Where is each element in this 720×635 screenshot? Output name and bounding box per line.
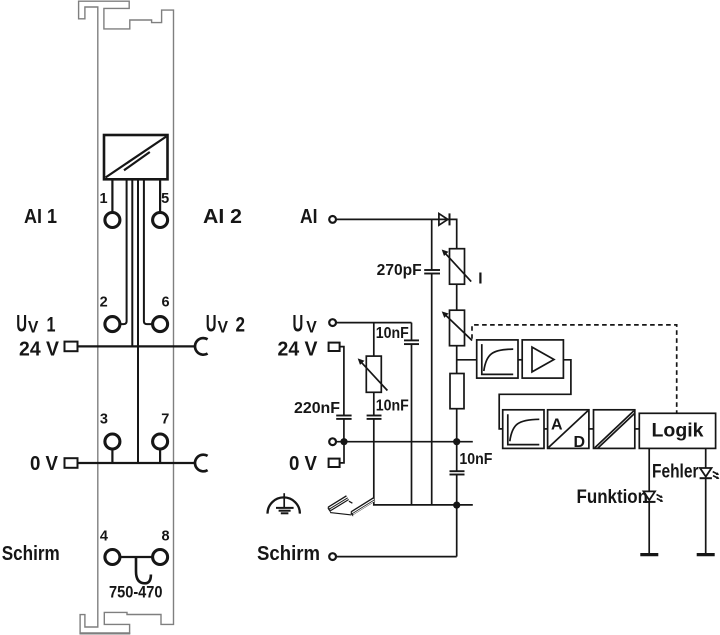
- junction shield rail node: [453, 502, 460, 509]
- svg-text:5: 5: [161, 191, 169, 207]
- svg-text:220nF: 220nF: [294, 400, 340, 417]
- svg-text:U: U: [293, 310, 304, 337]
- wire Fehler LED to ground: [705, 478, 707, 554]
- wire AI line: [337, 219, 457, 248]
- terminal 8: [153, 550, 168, 565]
- svg-text:2: 2: [100, 295, 108, 311]
- wire 0V line: [337, 441, 473, 443]
- wire R4 to 10nF b: [373, 392, 375, 415]
- svg-text:24 V: 24 V: [278, 338, 318, 361]
- wire Logik to Fehler LED: [705, 448, 707, 468]
- op-amp U3: [522, 340, 563, 378]
- terminal 5: [153, 213, 168, 228]
- wire ADC to isolator: [589, 428, 594, 430]
- terminal 2: [105, 317, 120, 332]
- svg-text:24 V: 24 V: [19, 338, 59, 361]
- 0V pass-through contact arc: [195, 455, 208, 472]
- svg-text:AI: AI: [300, 205, 318, 228]
- 24V square connector right: [329, 343, 340, 351]
- svg-text:Schirm: Schirm: [2, 542, 60, 565]
- LED Fehler: [700, 468, 720, 479]
- wire pin5 stub: [159, 179, 161, 213]
- svg-text:A: A: [551, 417, 563, 434]
- shield clamp symbol: [328, 495, 376, 516]
- node AI input circle: [329, 216, 336, 223]
- wire 270pF branch upper: [431, 219, 433, 270]
- svg-text:7: 7: [161, 411, 169, 427]
- wire 10nF c to shield rail: [456, 475, 458, 506]
- wire R3 to 0V node: [456, 409, 458, 442]
- svg-text:Funktion: Funktion: [577, 487, 649, 508]
- svg-text:10nF: 10nF: [459, 451, 492, 468]
- wire 24V stub to 220nF branch: [340, 347, 344, 416]
- terminal 1: [105, 213, 120, 228]
- svg-text:D: D: [574, 434, 586, 451]
- wire 0V to 10nF c: [456, 442, 458, 472]
- svg-text:8: 8: [161, 529, 169, 545]
- wire isolator to Logik: [635, 428, 640, 430]
- wire bundle line to 24V rail: [131, 179, 133, 346]
- capacitor 220nF: [336, 416, 351, 419]
- wire Uv varistor branch upper: [373, 323, 375, 357]
- wire 0V square stub: [340, 442, 344, 463]
- svg-text:270pF: 270pF: [377, 262, 422, 279]
- resistor R3: [450, 374, 464, 409]
- svg-text:2: 2: [236, 313, 246, 336]
- svg-text:Logik: Logik: [652, 421, 704, 442]
- wire shield rail to Schirm: [456, 505, 458, 556]
- svg-text:1: 1: [99, 191, 107, 207]
- module 750-470 outline: [79, 1, 174, 633]
- wire 10nF-b to shield rail corner: [374, 419, 473, 505]
- wire 0V module rail: [78, 462, 195, 464]
- filter block U2: [477, 340, 518, 378]
- node 0V circle: [329, 438, 336, 445]
- label Uv 2: [206, 310, 245, 337]
- capacitor 10nF a: [404, 340, 419, 344]
- isolator U6: [594, 410, 635, 449]
- dashed control line R2 to Logik: [472, 325, 677, 413]
- wire 220nF to 0V node: [343, 419, 345, 441]
- svg-text:6: 6: [161, 295, 169, 311]
- 24V feed square connector left: [65, 342, 78, 352]
- label Uv 1: [16, 310, 56, 337]
- wire 10nF-a branch upper: [411, 323, 413, 341]
- wire Uv line: [337, 322, 412, 324]
- 0V feed square connector left: [65, 458, 78, 468]
- wire input to filter block: [457, 359, 477, 361]
- earth ground symbol: [268, 493, 300, 513]
- filter block U4: [503, 410, 544, 449]
- wire between R1 and R2: [456, 284, 458, 310]
- svg-text:0 V: 0 V: [289, 452, 317, 475]
- svg-text:Fehler: Fehler: [652, 462, 699, 483]
- wire pin1 stub: [111, 179, 113, 213]
- wire Schirm line: [337, 556, 457, 558]
- svg-text:AI 2: AI 2: [203, 205, 242, 228]
- terminal 7: [153, 434, 168, 449]
- svg-text:Schirm: Schirm: [257, 542, 320, 565]
- wire bundle line to 0V rail: [137, 179, 139, 463]
- svg-text:U: U: [206, 310, 217, 337]
- wire R2 to R3: [456, 346, 458, 374]
- svg-text:3: 3: [100, 411, 108, 427]
- svg-text:AI 1: AI 1: [24, 205, 57, 228]
- shield contact hook: [136, 557, 151, 583]
- wire Logik to Funktion LED: [648, 448, 650, 491]
- capacitor 10nF c: [450, 471, 465, 474]
- wire terminal 3 stub: [111, 449, 113, 463]
- 0V square connector right: [329, 459, 340, 467]
- capacitor 10nF b: [367, 416, 382, 419]
- svg-text:750-470: 750-470: [109, 583, 163, 602]
- resistor R2 variable gain: [442, 310, 472, 346]
- junction main 0V node: [453, 438, 460, 445]
- svg-text:0 V: 0 V: [30, 452, 58, 475]
- wire 24V module rail: [78, 345, 195, 347]
- module foot bottom edge: [80, 632, 131, 634]
- wire bundle line to terminal 6: [144, 179, 152, 324]
- svg-text:V: V: [306, 318, 317, 337]
- svg-text:U: U: [16, 310, 27, 337]
- terminal 4: [105, 550, 120, 565]
- terminal 6: [153, 317, 168, 332]
- junction 24V/0V node: [340, 438, 347, 445]
- wire 10nF-a branch lower: [411, 344, 413, 505]
- svg-text:V: V: [218, 318, 229, 337]
- resistor R4 variable: [358, 356, 388, 392]
- wire bundle line to terminal 2: [121, 179, 127, 324]
- svg-text:10nF: 10nF: [376, 325, 409, 342]
- terminal 3: [105, 434, 120, 449]
- wire terminal 7 stub: [159, 449, 161, 463]
- 24V pass-through contact arc: [195, 338, 208, 355]
- wire filter to ADC: [544, 428, 548, 430]
- transformer U1: [104, 135, 168, 179]
- LED Funktion: [643, 491, 663, 502]
- ground Fehler: [697, 553, 715, 556]
- svg-text:4: 4: [100, 529, 108, 545]
- svg-text:I: I: [478, 271, 482, 288]
- capacitor 270pF: [424, 270, 440, 274]
- wire 270pF branch lower: [431, 274, 433, 505]
- wire shield bar terminals 4-8: [120, 556, 153, 558]
- svg-text:V: V: [28, 318, 39, 337]
- label Uv right: [293, 310, 318, 337]
- resistor R1 variable current limiter: [442, 249, 472, 285]
- wire filter to amplifier: [518, 359, 522, 361]
- node Schirm circle: [329, 553, 336, 560]
- wire Funktion LED to ground: [648, 502, 650, 555]
- node Uv circle: [329, 319, 336, 326]
- Logik block U7: [639, 413, 715, 448]
- A/D converter U5: [548, 410, 589, 451]
- svg-text:10nF: 10nF: [376, 397, 409, 414]
- diode D1: [439, 213, 450, 225]
- svg-text:1: 1: [47, 313, 56, 336]
- ground Funktion: [640, 553, 658, 556]
- wire amplifier to second filter: [499, 360, 571, 429]
